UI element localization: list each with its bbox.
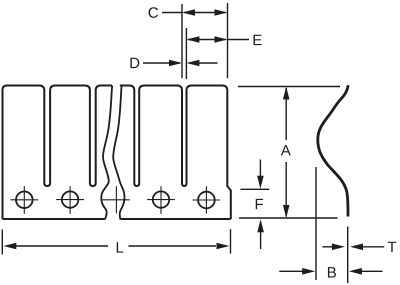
label L [117, 242, 124, 252]
label E [254, 35, 262, 45]
dimension F bottom arrow [257, 219, 264, 249]
tooth 3 top left segment [96, 86, 112, 91]
dimension D [143, 60, 218, 67]
label B [328, 267, 336, 277]
extension line F top [241, 188, 270, 190]
dimension B [279, 268, 382, 275]
hole 2 [56, 186, 84, 214]
hole 1 [10, 186, 38, 214]
part outline front view [3, 86, 231, 220]
break line right wavy [113, 86, 124, 220]
label C [149, 7, 159, 18]
dimension L [3, 243, 229, 250]
dimension C [162, 9, 228, 16]
B extension line left [315, 167, 317, 280]
hole 5 [193, 186, 221, 213]
extension line tooth5 right (C/E) [227, 3, 229, 78]
L extension tick right [230, 229, 232, 253]
dimension F top arrow [257, 160, 264, 189]
B/T extension line right [347, 227, 349, 284]
slot 1 [44, 91, 50, 187]
tooth 1 top [7, 86, 44, 91]
extension line slot4 left (C/D) [181, 4, 183, 78]
slot 2 [90, 91, 96, 187]
hole 3 center marks (break passes through) [101, 186, 130, 213]
L extension tick left [1, 230, 3, 255]
extension line bottom edge [239, 217, 338, 219]
dimension A [283, 87, 290, 219]
extension line A top [238, 86, 340, 88]
extension line slot4 right (E/D) [185, 28, 187, 79]
label A [281, 145, 291, 155]
label T [388, 242, 396, 252]
tooth 2 top [50, 86, 90, 91]
tooth 4 top [139, 86, 182, 91]
tooth 3 top right segment [120, 86, 135, 91]
tooth 5 top [187, 86, 228, 91]
side view S-curve profile [318, 85, 348, 216]
label F [256, 199, 263, 209]
dimension E [186, 36, 249, 43]
bottom edge right segment [121, 218, 231, 220]
hole 4 [147, 186, 175, 214]
slot 3 [134, 91, 139, 187]
bottom edge left segment [3, 218, 105, 220]
left edge [3, 86, 8, 220]
label D [130, 58, 139, 68]
break line left wavy [101, 86, 112, 220]
dimension T [322, 244, 384, 251]
right edge with step [227, 91, 231, 220]
slot 4 [182, 91, 187, 187]
